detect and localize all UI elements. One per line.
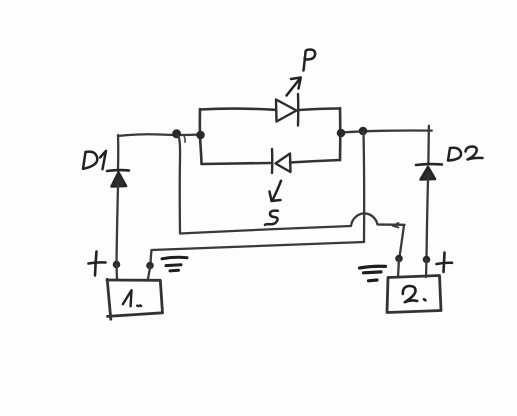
- hook mark at wire A corner: [393, 223, 399, 228]
- pen tick near left junction: [183, 136, 186, 142]
- label S: [265, 211, 278, 225]
- plus sign left: [89, 252, 106, 276]
- diode S (bottom, pointing left): [272, 149, 291, 173]
- wire from D2 down to terminal: [427, 179, 429, 258]
- label 2. inside box 2: [403, 286, 426, 302]
- node terminal box2 plus: [423, 256, 431, 264]
- source box 1: [107, 279, 163, 319]
- wire loop top edge right part: [299, 109, 340, 111]
- wire loop top edge left part: [200, 109, 275, 110]
- label D2: [448, 147, 483, 161]
- wire A down into box2 left terminal: [400, 225, 405, 257]
- label 1. inside box 1: [123, 290, 141, 306]
- wire B from right junction down under hop: [362, 132, 365, 242]
- wire B horizontal to left: [152, 242, 365, 250]
- wire stub into box1 right: [148, 266, 151, 280]
- diode P (top, pointing right): [276, 94, 298, 126]
- wire main left segment: [118, 134, 201, 136]
- wire stub into box2 right: [425, 260, 428, 277]
- plus sign right: [437, 253, 453, 273]
- label P: [304, 50, 316, 71]
- source box 2: [387, 276, 441, 313]
- node junction loop right: [337, 129, 346, 138]
- arrow to S: [270, 181, 282, 201]
- diode D2 (cathode bar up, filled triangle): [416, 164, 442, 179]
- wire B down into box1 right terminal: [151, 250, 152, 264]
- node terminal box1 plus: [113, 261, 121, 269]
- wire from D1 down to terminal: [117, 186, 119, 263]
- label D1: [83, 151, 106, 169]
- wire A from left junction down: [178, 136, 181, 234]
- ground symbol left: [162, 257, 187, 271]
- node junction right outer: [359, 127, 368, 136]
- wire loop bottom edge right part: [290, 160, 340, 163]
- wire A horizontal with crossover hop: [180, 213, 405, 233]
- node terminal box1 ground: [146, 262, 154, 270]
- diode D1 (cathode bar up, filled triangle): [107, 170, 129, 186]
- node terminal box2 ground: [395, 255, 403, 263]
- wire loop left edge: [200, 109, 202, 164]
- ground symbol right: [360, 266, 386, 281]
- wire left branch down to D1: [117, 135, 120, 169]
- wire main right segment: [341, 130, 432, 132]
- arrow to P: [287, 78, 301, 96]
- wire right branch down to D2: [427, 126, 430, 163]
- wire loop bottom edge left part: [202, 163, 271, 164]
- node junction left outer: [172, 129, 181, 138]
- wire stub into box2 left: [398, 259, 399, 277]
- wire stub into box1 left: [115, 265, 118, 280]
- node junction loop left: [196, 131, 205, 140]
- wire loop right edge: [339, 108, 342, 160]
